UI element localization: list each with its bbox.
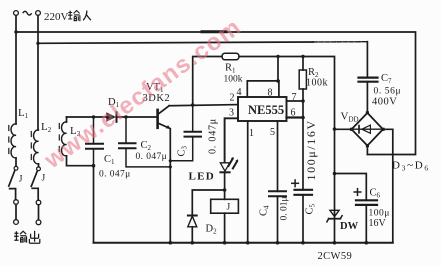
wire pin3 (225, 118, 238, 162)
wire L2 to switch (38, 164, 40, 167)
wire VDD to bridge left (335, 128, 352, 130)
label 220V input (23, 11, 32, 15)
node rail1 tap (14, 30, 17, 33)
node R2 supply tap (301, 55, 304, 58)
wire pin8 to rail (277, 57, 279, 81)
wire VDD column with DW (334, 129, 336, 243)
svg-text:LED: LED (189, 171, 216, 183)
inductor L3 (66, 117, 68, 122)
node pin7 (301, 99, 305, 103)
svg-text:2CW59: 2CW59 (318, 251, 353, 262)
capacitor C6 (335, 174, 367, 201)
diode D2 (192, 190, 224, 216)
svg-text:0. 01μ: 0. 01μ (280, 196, 290, 220)
wire pin4 pin8 bracket (247, 81, 279, 97)
capacitor C3 (192, 105, 194, 132)
switch J right (37, 167, 41, 171)
wire emitter down (169, 129, 171, 243)
svg-text:J: J (42, 174, 46, 184)
wire left input drop (15, 15, 17, 124)
node pin8 bracket (276, 79, 280, 83)
node LED bottom (223, 188, 227, 192)
wire pin1 (247, 121, 249, 243)
node collector/C3 junction (191, 103, 195, 107)
relay J coil (224, 190, 226, 199)
terminal input right (36, 11, 41, 16)
svg-text:4: 4 (237, 87, 242, 98)
wire L1 to switch (15, 158, 17, 166)
svg-text:1: 1 (249, 128, 254, 139)
capacitor C1 (93, 117, 95, 144)
svg-text:400V: 400V (372, 97, 397, 108)
node C1/L3 junction (92, 164, 96, 168)
resistor R2 (302, 57, 304, 71)
transistor Q1 VT1 (156, 110, 159, 128)
wire pin7 (287, 100, 304, 102)
glyph 入 (83, 11, 91, 21)
svg-text:DW: DW (340, 221, 359, 232)
capacitor C7 (366, 42, 368, 78)
wire top rail L (16, 32, 416, 155)
wire second rail N (38, 42, 313, 43)
wire right input drop (37, 15, 39, 130)
wire pin5 (277, 121, 279, 191)
svg-text:D3~D6: D3~D6 (392, 160, 430, 173)
inductor L2 (34, 130, 39, 164)
bridge rectifier D3-D6 (352, 113, 384, 146)
capacitor C5 (295, 189, 313, 191)
capacitor C4 (269, 190, 286, 192)
resistor R1 (222, 53, 239, 60)
label output 输出 (14, 231, 40, 243)
op-amp U1 NE555 box (238, 97, 287, 121)
ground rail bottom (94, 242, 393, 244)
glyph 输 (68, 11, 80, 22)
diode D1 (106, 112, 116, 122)
svg-text:100k: 100k (224, 75, 243, 85)
svg-text:8: 8 (268, 88, 273, 99)
wire R1 feed (193, 57, 222, 106)
svg-text:0. 047μ: 0. 047μ (208, 118, 219, 154)
inductor L1 (11, 124, 16, 158)
svg-text:5: 5 (270, 127, 275, 138)
diode DW zener (330, 210, 339, 216)
wire top rail thick segment (202, 30, 226, 33)
wire bridge bottom to border (366, 146, 368, 155)
node pin6 (301, 116, 305, 120)
svg-text:NE555: NE555 (248, 103, 284, 117)
svg-text:0. 56μ: 0. 56μ (374, 87, 402, 97)
svg-text:0. 047μ: 0. 047μ (99, 170, 131, 180)
wire pin6 (287, 116, 304, 118)
svg-text:100μ/16V: 100μ/16V (304, 119, 318, 180)
node rail junctions (169, 241, 173, 245)
node C2 top (124, 115, 127, 118)
node emitter/C2 (169, 165, 172, 168)
svg-text:6: 6 (291, 108, 296, 119)
wire L3 bottom (67, 156, 94, 166)
svg-text:16V: 16V (369, 218, 387, 229)
node C1 top (92, 115, 95, 118)
node rail2 tap (36, 42, 39, 45)
node pin8 supply tap (276, 55, 279, 58)
switch J left (14, 166, 18, 170)
svg-text:100k: 100k (306, 78, 328, 89)
LED (220, 163, 229, 171)
wire D1 to base (117, 116, 157, 118)
wire R1 to VDD column (239, 57, 335, 130)
node VDD (333, 127, 337, 131)
svg-text:220V: 220V (44, 11, 69, 23)
svg-text:7: 7 (292, 92, 297, 103)
svg-text:0. 047μ: 0. 047μ (136, 152, 168, 162)
wire collector to pin2 (169, 105, 238, 106)
wire second rail N faint segment (313, 41, 367, 43)
wire bridge right down (383, 129, 393, 242)
terminal input left (14, 11, 19, 16)
wire left riser to ground rail (93, 166, 95, 243)
node emitter/C3 (169, 159, 172, 162)
svg-text:100μ: 100μ (369, 209, 390, 219)
svg-text:J: J (227, 203, 231, 213)
svg-text:2: 2 (230, 93, 235, 104)
svg-text:J: J (19, 175, 23, 185)
svg-text:3: 3 (229, 108, 234, 119)
node C6 branch (333, 172, 337, 176)
capacitor C2 (125, 117, 127, 143)
wire L3 top to D1 (67, 116, 107, 118)
